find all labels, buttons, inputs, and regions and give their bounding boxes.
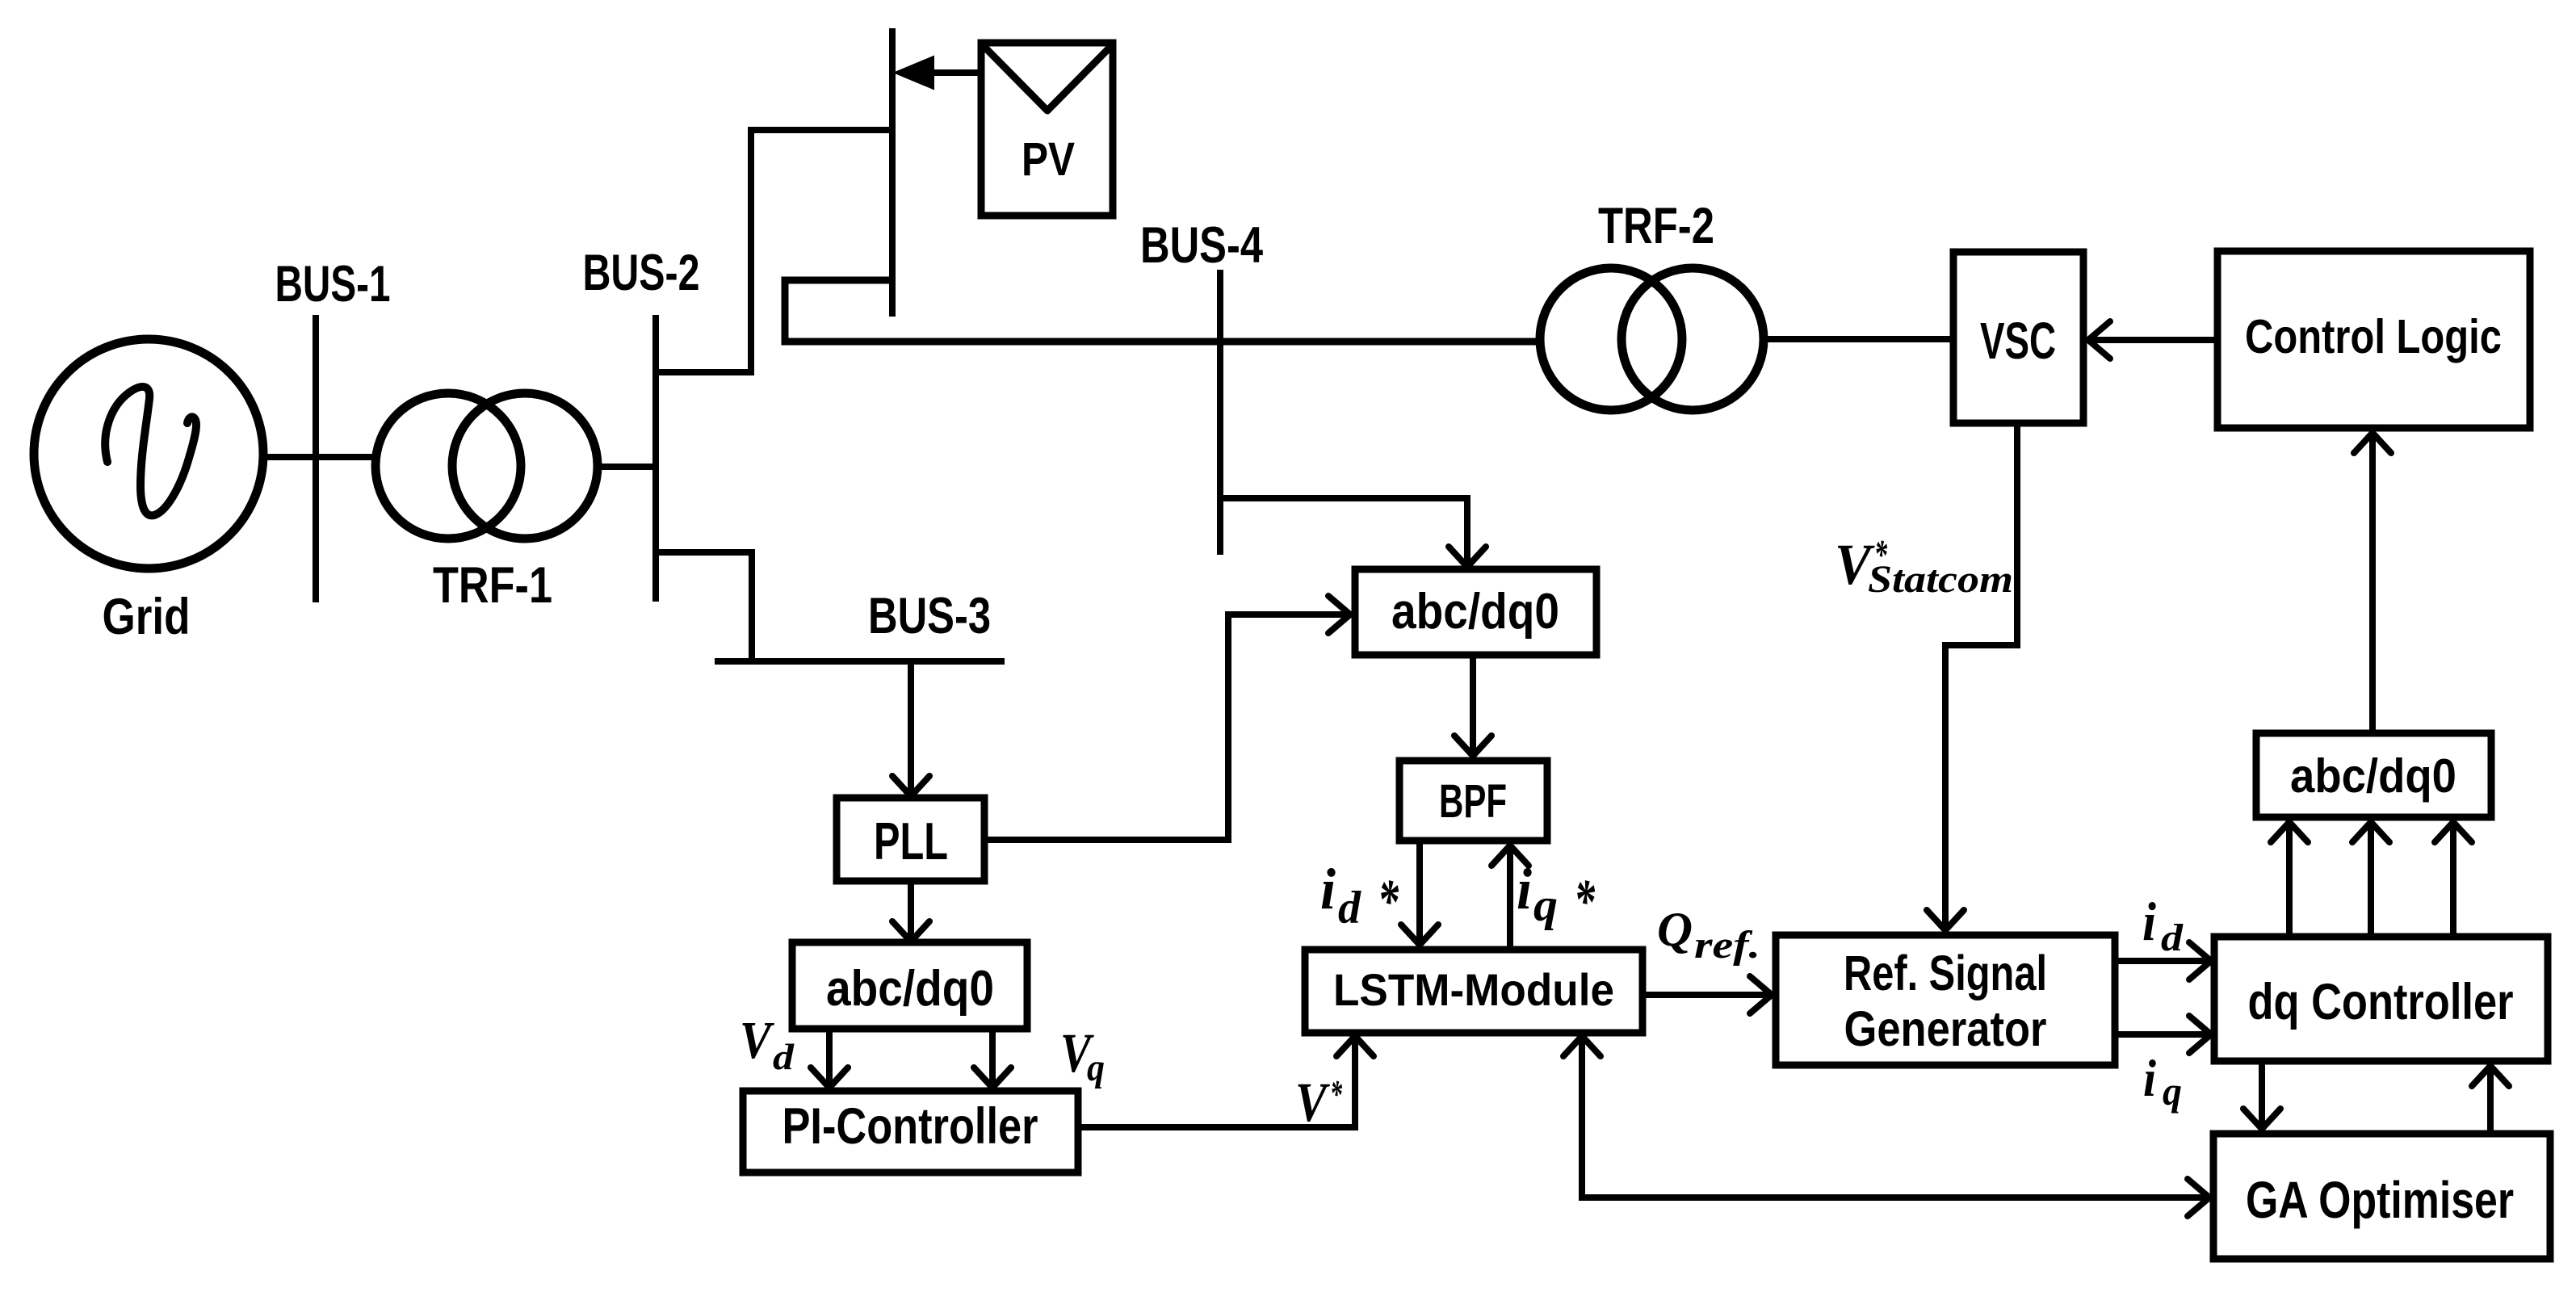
wire dq Controller to abc/dq0 right 3	[2450, 824, 2456, 937]
svg-text:ref.: ref.	[1694, 924, 1760, 967]
wire BUS-2 to PV bus	[656, 130, 889, 372]
wire dq Controller to abc/dq0 right 2	[2368, 824, 2374, 937]
wire BUS-2 to BUS-3	[656, 552, 752, 661]
wire Control Logic to VSC	[2091, 337, 2217, 343]
svg-text:TRF-2: TRF-2	[1598, 198, 1714, 254]
svg-text:q: q	[1533, 880, 1558, 931]
VSC box	[1953, 252, 2083, 423]
svg-text:Grid: Grid	[103, 589, 191, 645]
svg-text:GA Optimiser: GA Optimiser	[2246, 1171, 2514, 1229]
transformer TRF-1	[375, 393, 521, 539]
svg-text:dq Controller: dq Controller	[2248, 974, 2514, 1030]
svg-text:q: q	[2163, 1068, 2182, 1114]
svg-text:abc/dq0: abc/dq0	[826, 961, 994, 1017]
grid source circle	[34, 339, 263, 568]
wire Ref Signal to dq Controller iq	[2115, 1031, 2206, 1038]
transformer TRF-2	[1540, 268, 1682, 410]
wire TRF-1 to BUS-2	[602, 464, 656, 470]
svg-text:i: i	[2143, 1050, 2156, 1108]
svg-text:V: V	[740, 1011, 774, 1070]
wire PI-Controller to LSTM V*	[1078, 1039, 1355, 1127]
grid sine glyph	[105, 387, 196, 515]
wire GA Optimiser to dq Controller	[2487, 1068, 2494, 1134]
svg-text:i: i	[2142, 891, 2156, 952]
wire BPF to LSTM id*	[1416, 841, 1423, 943]
svg-text:Control Logic: Control Logic	[2245, 310, 2502, 363]
wire BUS-4 to abc/dq0 center	[1220, 498, 1467, 564]
svg-text:d: d	[2161, 917, 2184, 959]
svg-text:abc/dq0: abc/dq0	[2290, 749, 2456, 803]
wire VSC to Ref Signal Generator	[1945, 423, 2017, 929]
svg-text:*: *	[1574, 867, 1596, 935]
svg-text:PLL: PLL	[874, 812, 948, 870]
svg-text:BUS-1: BUS-1	[275, 256, 391, 313]
GA Optimiser box	[2213, 1134, 2550, 1259]
PV arrowhead	[895, 57, 933, 89]
dq Controller box	[2214, 937, 2548, 1061]
wire TRF-2 to VSC	[1764, 336, 1953, 342]
svg-text:V: V	[1295, 1072, 1330, 1133]
wire abc/dq0 to PI-Controller Vq	[989, 1029, 996, 1086]
wire LSTM-GA link	[1582, 1039, 2205, 1198]
wire dq Controller to abc/dq0 right 1	[2286, 824, 2293, 937]
bus BUS-1	[313, 315, 319, 602]
main AC bus wire	[785, 280, 1537, 342]
svg-text:BUS-4: BUS-4	[1140, 217, 1263, 274]
svg-text:BPF: BPF	[1439, 775, 1507, 828]
svg-text:TRF-1: TRF-1	[433, 557, 552, 614]
wire grid to TRF-1	[267, 454, 375, 460]
abc/dq0 right box	[2256, 733, 2491, 817]
svg-text:VSC: VSC	[1980, 312, 2056, 370]
Control Logic box	[2217, 251, 2530, 428]
svg-text:Q: Q	[1657, 903, 1693, 956]
abc/dq0 center box	[1355, 569, 1596, 655]
abc/dq0 left box	[792, 942, 1027, 1029]
LSTM-Module box	[1305, 950, 1643, 1033]
svg-text:Generator: Generator	[1844, 1001, 2047, 1056]
svg-text:BUS-3: BUS-3	[868, 588, 991, 644]
PV box	[981, 43, 1113, 216]
svg-text:i: i	[1517, 857, 1532, 921]
bus BUS-3	[715, 658, 1005, 665]
wire PV arrow line	[931, 69, 981, 76]
svg-text:abc/dq0: abc/dq0	[1391, 584, 1559, 640]
Ref Signal Generator box	[1776, 935, 2115, 1065]
wire PLL to abc/dq0 center	[984, 615, 1347, 840]
BPF box	[1399, 761, 1547, 841]
PLL box	[837, 798, 984, 881]
PV bus line	[889, 28, 896, 317]
bus BUS-2	[652, 315, 659, 602]
svg-text:Statcom: Statcom	[1868, 558, 2013, 601]
wire abc/dq0 to PI-Controller Vd	[826, 1029, 833, 1086]
svg-text:PI-Controller: PI-Controller	[782, 1098, 1038, 1155]
wire abc/dq0 center to BPF	[1470, 655, 1476, 754]
PI-Controller box	[743, 1091, 1078, 1172]
wire BUS-3 to PLL	[908, 661, 914, 795]
svg-text:LSTM-Module: LSTM-Module	[1333, 964, 1614, 1015]
svg-text:PV: PV	[1022, 133, 1075, 186]
bus BUS-4	[1217, 270, 1223, 555]
svg-text:d: d	[773, 1036, 795, 1077]
wire PLL to abc/dq0 left	[908, 881, 914, 940]
wire dq Controller to GA Optimiser	[2259, 1061, 2265, 1127]
svg-text:*: *	[1330, 1072, 1342, 1116]
svg-text:Ref. Signal: Ref. Signal	[1844, 946, 2047, 1000]
svg-text:d: d	[1338, 883, 1361, 933]
svg-text:*: *	[1378, 867, 1399, 935]
svg-text:BUS-2: BUS-2	[583, 245, 700, 301]
svg-text:i: i	[1320, 857, 1336, 921]
svg-text:q: q	[1087, 1047, 1105, 1089]
wire LSTM to BPF iq*	[1507, 847, 1513, 950]
wire LSTM to Ref Signal Qref	[1643, 992, 1768, 998]
wire abc/dq0 right to Control Logic	[2369, 434, 2376, 733]
wire Ref Signal to dq Controller id	[2115, 958, 2206, 964]
